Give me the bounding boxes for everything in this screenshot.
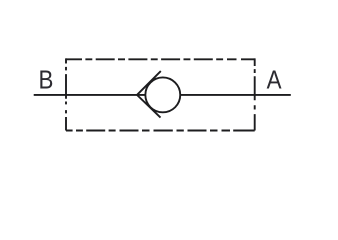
enclosure bottom edge (dash-dot)	[66, 130, 255, 132]
wire: B to A main line	[34, 94, 291, 96]
svg-text:B: B	[39, 66, 54, 95]
enclosure top edge (dash-dot)	[66, 58, 255, 60]
check valve seat (V)	[137, 71, 161, 118]
enclosure left edge (dash-dot)	[65, 58, 67, 130]
check valve poppet (circle)	[145, 77, 180, 112]
enclosure right edge (dash-dot)	[254, 58, 256, 130]
svg-text:A: A	[267, 66, 283, 95]
